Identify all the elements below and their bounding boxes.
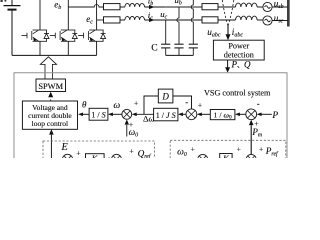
wire DC negative rail xyxy=(12,54,97,56)
wire xyxy=(232,158,246,160)
wire phase b to grid inductor xyxy=(218,6,236,8)
wire phase c to source usc xyxy=(257,19,263,21)
inductor Lgb grid xyxy=(236,3,258,7)
svg-text:+: + xyxy=(76,148,80,157)
wire capacitor neutral rail xyxy=(166,54,194,56)
integrator block 1/S xyxy=(89,108,108,120)
inertia block 1/JS xyxy=(154,108,178,121)
wire phase b xyxy=(166,6,181,8)
summing junction Qref xyxy=(112,154,122,164)
wire cap2 tap from phase b hopping phase c xyxy=(177,7,179,44)
wire cap3 from phase a (cropped) hopping b and c xyxy=(191,0,193,44)
wire usc to grid bus xyxy=(272,20,287,22)
wire xyxy=(189,158,198,160)
svg-text:C: C xyxy=(151,42,157,53)
wire Pref into summer xyxy=(256,158,265,160)
svg-text:+: + xyxy=(259,145,263,154)
wire phase b to source usb xyxy=(257,6,263,8)
measurement probe dashed funnel xyxy=(222,0,228,26)
AC source usc xyxy=(263,16,272,25)
capacitor C3 xyxy=(189,44,198,55)
wire E summer output xyxy=(51,159,62,161)
resistor Rb filter xyxy=(104,4,121,10)
wire damping tap from delta omega up to D xyxy=(144,96,158,114)
wire phase c continues xyxy=(166,19,202,21)
inductor Lgc grid xyxy=(236,16,258,20)
wire omega0 into summer xyxy=(126,125,128,137)
wire xyxy=(120,19,125,21)
wire leg3 emitter down xyxy=(96,41,98,55)
wire D output down into summer xyxy=(173,96,192,109)
measurement arrow uabc iabc xyxy=(227,26,229,35)
wire Pm from governor up into power summer xyxy=(250,125,252,154)
svg-text:1 / J S: 1 / J S xyxy=(156,111,176,120)
svg-text:loop control: loop control xyxy=(32,119,68,128)
transistor Q2 (IGBT with antiparallel diode) xyxy=(50,30,78,41)
capacitor C2 xyxy=(174,44,183,55)
summing junction governor droop xyxy=(198,154,208,164)
inductor Lb filter xyxy=(125,3,145,7)
wire cap1 tap from phase c xyxy=(165,20,167,45)
wire E from excitation loop up into voltage loop xyxy=(50,135,52,158)
svg-text:Power: Power xyxy=(228,42,249,51)
svg-text:ω: ω xyxy=(113,100,120,111)
wire phase c from ec tap xyxy=(97,19,104,21)
gain block K excitation xyxy=(86,154,105,166)
inductor Lc filter xyxy=(125,16,145,20)
infinite grid bus bar xyxy=(288,0,290,27)
svg-text:D: D xyxy=(161,91,169,101)
wire from 1/omega0 into torque summer xyxy=(201,113,210,115)
SPWM block xyxy=(36,79,66,92)
svg-text:Δω: Δω xyxy=(143,113,155,123)
Voltage and current double loop control block xyxy=(22,101,77,129)
svg-text:+: + xyxy=(237,145,241,154)
gain block K governor xyxy=(220,154,232,165)
svg-text:1 / S: 1 / S xyxy=(91,111,105,120)
wire xyxy=(120,6,125,8)
Power detection block xyxy=(213,40,264,60)
svg-text:detection: detection xyxy=(224,50,254,59)
VSG control system outer box xyxy=(14,73,287,158)
wire omega from summer to 1/S xyxy=(112,113,122,115)
wire from torque summer into 1/JS xyxy=(182,113,186,115)
wire leg2 collector with phase b tap xyxy=(67,0,69,30)
damping block D xyxy=(158,89,173,103)
wire Qref into summer xyxy=(121,158,137,160)
svg-text:+: + xyxy=(191,145,195,154)
transistor Q1 (IGBT with antiparallel diode) xyxy=(22,30,50,41)
svg-text:θ: θ xyxy=(82,100,87,110)
AC source usb xyxy=(263,2,272,11)
wire theta into voltage loop xyxy=(83,113,90,115)
capacitor C1 xyxy=(161,44,170,55)
gain block 1/omega0 xyxy=(210,110,235,120)
wire delta-omega from 1/JS to summer xyxy=(136,113,153,115)
wire K input xyxy=(104,158,112,160)
wire phase b from eb tap xyxy=(68,5,103,7)
svg-text:-: - xyxy=(257,99,260,109)
wire leg3 collector with phase c tap xyxy=(96,0,98,30)
current arrow ib xyxy=(149,5,155,9)
cropped Udc label fragment top-left xyxy=(1,0,3,2)
resistor Rc filter xyxy=(104,17,121,23)
summing junction torque xyxy=(186,109,197,120)
arrow modulation into SPWM xyxy=(50,100,52,102)
svg-text:+: + xyxy=(134,99,138,108)
SPWM gate drive hollow arrow xyxy=(40,57,56,79)
governor dashed box xyxy=(170,140,286,170)
summing junction power xyxy=(246,109,257,120)
excitation control dashed box xyxy=(43,141,155,171)
wire usb to grid bus xyxy=(272,6,287,8)
svg-text:VSG control system: VSG control system xyxy=(204,88,271,97)
svg-text:P: P xyxy=(271,111,278,121)
summing junction excitation E xyxy=(62,154,72,164)
summing junction Pref xyxy=(246,154,256,164)
svg-text:+: + xyxy=(198,101,202,110)
resistor Rgb grid xyxy=(202,4,218,10)
svg-text:E: E xyxy=(61,142,69,153)
wire battery negative to DC bus xyxy=(11,11,13,56)
wire from power summer into 1/omega0 xyxy=(239,113,245,115)
arrow P Q into VSG control xyxy=(227,60,229,68)
arrowhead theta xyxy=(78,113,83,117)
wire leg1 emitter down xyxy=(39,41,41,55)
wire phase b to current arrow xyxy=(145,6,166,8)
svg-text:SPWM: SPWM xyxy=(38,82,63,91)
wire phase b to stage 2 xyxy=(181,6,197,8)
svg-text:+: + xyxy=(129,146,133,155)
current arrow ic xyxy=(149,18,155,22)
svg-text:-: - xyxy=(185,97,188,107)
wire leg2 emitter down xyxy=(67,41,69,55)
battery (DC source) xyxy=(11,0,13,5)
summing junction omega xyxy=(122,109,132,119)
wire xyxy=(208,158,220,160)
wire phase c to current arrow xyxy=(145,19,166,21)
wire xyxy=(81,159,86,161)
svg-text:P、Q: P、Q xyxy=(231,60,252,70)
wire phase c to grid inductor xyxy=(218,19,236,21)
resistor Rgc grid xyxy=(202,17,218,23)
wire P input from right xyxy=(261,113,272,115)
wire leg1 collector up (phase a, cropped) xyxy=(39,0,41,30)
transistor Q3 (IGBT with antiparallel diode) xyxy=(78,30,106,41)
wire phase b into grid resistor xyxy=(197,6,203,8)
